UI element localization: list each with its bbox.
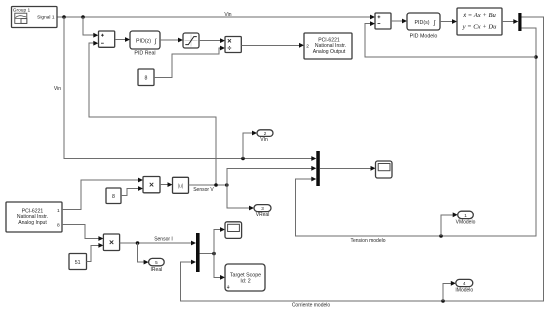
svg-text:5: 5 — [155, 260, 158, 265]
wire label Tension modelo — [350, 238, 385, 244]
wire label Sensor V — [193, 187, 214, 193]
wire Analog Input port 8 to Product3 — [62, 225, 103, 241]
scope Scope2 — [225, 222, 242, 239]
wire Analog Input port 1 to Product2 — [62, 178, 143, 210]
svg-text:Id: 2: Id: 2 — [240, 279, 250, 285]
wire Saturation to Product1 — [199, 38, 225, 43]
outport VReal — [254, 205, 271, 218]
sum block Sum2 (model loop) — [375, 13, 391, 29]
node junction on Vin main at x=83 — [81, 15, 85, 19]
svg-text:51: 51 — [75, 260, 81, 266]
wire Sensor V feedback to Sum1 - input — [89, 41, 216, 185]
wire branch to outport VModelo — [441, 212, 458, 236]
svg-text:Sensor I: Sensor I — [154, 236, 173, 242]
node junction scope split at (214,253.5) — [212, 252, 216, 256]
svg-text:PID Modelo: PID Modelo — [410, 33, 438, 39]
wire branch to Sum1 + input — [83, 17, 98, 38]
svg-text:Sensor V: Sensor V — [193, 187, 214, 193]
wire Sensor V up to Mux1 input 2 — [227, 166, 316, 185]
wire branch to outport IModelo — [443, 281, 456, 301]
state-space block (x = Ax + Bu ; y = Cx + Du) — [457, 8, 502, 35]
product block Product3 (sensor I gain) — [103, 234, 119, 251]
node junction IModelo branch at (443,301) — [441, 299, 445, 303]
wire label Vin (left vertical) — [54, 86, 61, 92]
wire Sensor I to Mux2 input 1 — [120, 241, 196, 246]
node junction sensor V feedback at (216,185) — [214, 183, 218, 187]
mux Mux1 (tension signals) — [316, 151, 320, 186]
wire Sum1 to PID Real — [115, 37, 130, 42]
wire branch to outport VIn — [243, 131, 257, 159]
svg-text:8: 8 — [112, 194, 115, 200]
svg-text:Analog Output: Analog Output — [313, 49, 346, 55]
svg-text:PID(s): PID(s) — [414, 20, 429, 26]
block PCI-6221 National Instr. Analog Input — [6, 202, 62, 232]
outport IModelo — [455, 279, 473, 293]
wire PID Modelo to State-Space — [440, 19, 457, 24]
svg-text:∫: ∫ — [154, 38, 157, 45]
wire Sensor V down to outport VReal — [227, 185, 254, 210]
wire label Sensor I — [154, 236, 173, 242]
node junction IReal branch at (137.5,243) — [136, 241, 140, 245]
constant block 51 — [69, 254, 87, 270]
wire constant 51 to Product3 input 2 — [87, 243, 104, 262]
svg-text:8: 8 — [145, 75, 148, 81]
svg-text:∫: ∫ — [433, 20, 436, 27]
wire Product1 to Analog Output — [241, 43, 304, 48]
PID controller PID Modelo — [407, 13, 440, 39]
scope Scope1 — [376, 161, 393, 178]
wire Vin vertical branch to Mux1 input 1 — [64, 17, 316, 161]
product block Product2 (sensor V gain) — [143, 177, 160, 193]
svg-text:Vin: Vin — [224, 12, 231, 18]
svg-text:IModelo: IModelo — [455, 287, 473, 293]
abs block |u| — [173, 177, 189, 193]
svg-text:Group 1: Group 1 — [13, 8, 31, 14]
constant block 8 (top) — [138, 69, 154, 86]
block Target Scope Id: 2 — [225, 264, 265, 291]
svg-text:IReal: IReal — [151, 267, 163, 273]
svg-text:VReal: VReal — [256, 212, 270, 218]
svg-text:1: 1 — [464, 213, 467, 218]
svg-text:|u|: |u| — [178, 183, 184, 189]
svg-text:3: 3 — [261, 206, 264, 211]
wire Vin main (Signal1 output to Sum2 +) — [57, 15, 375, 20]
wire branch down to Target Scope — [214, 254, 225, 280]
wire label Vin (top) — [224, 12, 231, 18]
svg-text:Analog Input: Analog Input — [18, 220, 47, 226]
outport IReal — [149, 258, 165, 272]
demux — [518, 13, 521, 31]
svg-text:PID Real: PID Real — [134, 51, 155, 57]
node junction on Vin main at x=64 — [62, 15, 66, 19]
svg-text:VIn: VIn — [260, 137, 268, 143]
svg-text:Vin: Vin — [54, 86, 61, 92]
svg-text:8: 8 — [57, 223, 60, 229]
wire Sensor V — [189, 184, 227, 186]
svg-text:Tension modelo: Tension modelo — [350, 238, 385, 244]
wire Mux2 output — [200, 253, 214, 255]
wire branch to outport IReal — [138, 243, 149, 265]
constant block 8 (bottom) — [106, 188, 121, 204]
wire Mux1 to Scope1 — [320, 166, 376, 171]
wire Sum2 to PID Modelo — [391, 19, 407, 24]
wire PID Real to Saturation — [160, 38, 183, 43]
node junction feedback at (536,57) — [534, 55, 538, 59]
node junction to VIn port at (243,158.5) — [241, 157, 245, 161]
wire constant 8 to Product1 divide input — [154, 46, 225, 78]
svg-text:2: 2 — [264, 131, 267, 136]
product block Product1 (x /) — [225, 37, 241, 53]
svg-text:y = Cx + Du: y = Cx + Du — [462, 23, 498, 30]
wire Demux out2 (tension) to Mux1 input 3 — [295, 28, 536, 236]
node junction sensor V branch at (226.8,185) — [225, 183, 229, 187]
svg-text:4: 4 — [463, 281, 466, 286]
wire branch up to Scope2 — [214, 227, 225, 253]
sum block Sum1 — [99, 31, 115, 47]
svg-text:Corriente modelo: Corriente modelo — [292, 303, 331, 309]
wire Product2 to Abs — [160, 182, 173, 187]
wire Demux out1 (corriente) to Mux2 input 2 — [180, 17, 543, 301]
wire State-Space to Demux — [502, 19, 518, 24]
block PCI-6221 National Instr. Analog Output — [304, 33, 352, 59]
svg-text:1: 1 — [57, 208, 60, 214]
svg-text:Signal 1: Signal 1 — [37, 14, 55, 20]
svg-text:2: 2 — [306, 43, 309, 49]
signal builder block Group 1 — [12, 7, 58, 28]
svg-text:PID(z): PID(z) — [136, 39, 151, 45]
outport VIn — [257, 130, 273, 143]
svg-text:VModelo: VModelo — [456, 219, 476, 225]
saturation block — [183, 33, 199, 48]
PID controller PID Real — [130, 31, 160, 57]
wire feedback to Sum2 - input — [365, 21, 536, 57]
wire constant 8 to Product2 input 2 — [121, 186, 143, 196]
outport VModelo — [456, 211, 476, 225]
mux Mux2 (corriente signals) — [196, 233, 200, 272]
wire label Corriente modelo — [292, 303, 331, 309]
node junction VModelo branch at (441,236) — [439, 234, 443, 238]
svg-text:ẋ = Ax + Bu: ẋ = Ax + Bu — [462, 12, 496, 19]
